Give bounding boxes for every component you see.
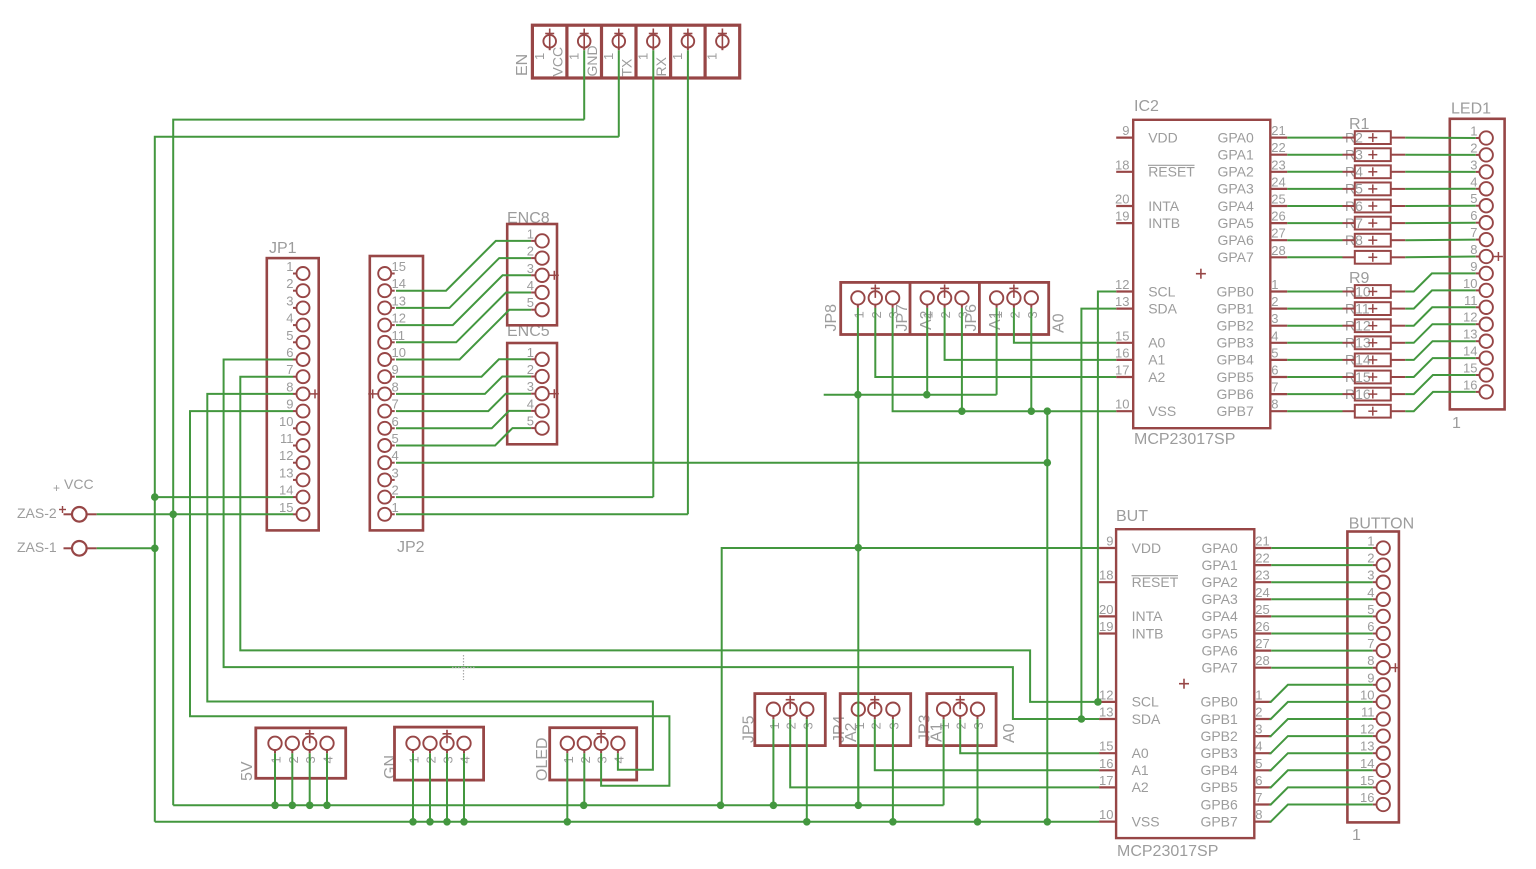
svg-text:27: 27 xyxy=(1255,636,1269,651)
svg-text:VCC: VCC xyxy=(549,47,565,77)
svg-text:9: 9 xyxy=(1470,259,1477,274)
svg-text:GPB5: GPB5 xyxy=(1216,369,1254,385)
svg-text:16: 16 xyxy=(1099,756,1113,771)
svg-text:5: 5 xyxy=(1470,191,1477,206)
svg-text:8: 8 xyxy=(1255,807,1262,822)
svg-text:RX: RX xyxy=(653,56,669,76)
svg-text:22: 22 xyxy=(1255,551,1269,566)
svg-text:16: 16 xyxy=(1360,790,1374,805)
svg-text:19: 19 xyxy=(1099,619,1113,634)
svg-text:14: 14 xyxy=(1360,756,1374,771)
svg-text:2: 2 xyxy=(527,244,534,259)
svg-text:SDA: SDA xyxy=(1148,300,1177,316)
svg-text:VDD: VDD xyxy=(1132,540,1162,556)
svg-text:GPA1: GPA1 xyxy=(1201,557,1238,573)
svg-text:2: 2 xyxy=(1367,551,1374,566)
svg-text:A1: A1 xyxy=(1132,762,1149,778)
svg-text:SDA: SDA xyxy=(1132,711,1161,727)
svg-text:14: 14 xyxy=(392,276,406,291)
svg-text:2: 2 xyxy=(1255,705,1262,720)
svg-text:6: 6 xyxy=(286,345,293,360)
svg-text:3: 3 xyxy=(1367,568,1374,583)
svg-text:4: 4 xyxy=(1271,328,1278,343)
svg-text:15: 15 xyxy=(1099,739,1113,754)
svg-text:25: 25 xyxy=(1255,602,1269,617)
svg-text:5: 5 xyxy=(1271,345,1278,360)
svg-text:6: 6 xyxy=(1367,619,1374,634)
svg-text:GPA7: GPA7 xyxy=(1201,660,1238,676)
svg-text:6: 6 xyxy=(1470,208,1477,223)
svg-text:IC2: IC2 xyxy=(1134,98,1159,115)
svg-text:5: 5 xyxy=(392,431,399,446)
svg-text:9: 9 xyxy=(1367,670,1374,685)
svg-text:13: 13 xyxy=(1099,705,1113,720)
svg-text:1: 1 xyxy=(1352,827,1361,844)
svg-text:17: 17 xyxy=(1099,773,1113,788)
svg-text:1: 1 xyxy=(1367,534,1374,549)
svg-text:8: 8 xyxy=(1271,397,1278,412)
svg-text:15: 15 xyxy=(1115,328,1129,343)
svg-text:ZAS-1: ZAS-1 xyxy=(17,539,57,555)
svg-text:7: 7 xyxy=(1271,380,1278,395)
svg-text:26: 26 xyxy=(1255,619,1269,634)
svg-text:MCP23017SP: MCP23017SP xyxy=(1117,843,1218,860)
svg-text:2: 2 xyxy=(286,276,293,291)
svg-text:6: 6 xyxy=(392,414,399,429)
svg-text:4: 4 xyxy=(527,278,534,293)
svg-text:9: 9 xyxy=(1106,534,1113,549)
svg-text:15: 15 xyxy=(279,500,293,515)
svg-text:GPB4: GPB4 xyxy=(1200,762,1238,778)
svg-text:1: 1 xyxy=(527,345,534,360)
svg-text:1: 1 xyxy=(286,259,293,274)
svg-text:GPB1: GPB1 xyxy=(1200,711,1238,727)
svg-text:INTB: INTB xyxy=(1148,215,1180,231)
svg-text:14: 14 xyxy=(1463,344,1477,359)
svg-text:4: 4 xyxy=(286,311,293,326)
svg-text:26: 26 xyxy=(1271,209,1285,224)
svg-text:10: 10 xyxy=(1463,276,1477,291)
svg-text:GPA7: GPA7 xyxy=(1217,249,1254,265)
svg-text:12: 12 xyxy=(1115,277,1129,292)
svg-text:GPA2: GPA2 xyxy=(1217,164,1254,180)
svg-text:A1: A1 xyxy=(1148,352,1165,368)
svg-text:GPB0: GPB0 xyxy=(1216,283,1254,299)
svg-text:8: 8 xyxy=(392,379,399,394)
svg-text:GPB7: GPB7 xyxy=(1216,403,1254,419)
svg-text:3: 3 xyxy=(286,293,293,308)
svg-text:GPB7: GPB7 xyxy=(1200,813,1238,829)
svg-text:1: 1 xyxy=(670,53,685,60)
svg-text:2: 2 xyxy=(392,483,399,498)
svg-text:21: 21 xyxy=(1271,123,1285,138)
svg-text:13: 13 xyxy=(279,465,293,480)
svg-text:GPB1: GPB1 xyxy=(1216,300,1254,316)
svg-text:SCL: SCL xyxy=(1148,283,1175,299)
svg-text:VDD: VDD xyxy=(1148,129,1178,145)
svg-text:9: 9 xyxy=(392,362,399,377)
svg-text:27: 27 xyxy=(1271,226,1285,241)
svg-text:VSS: VSS xyxy=(1148,403,1176,419)
svg-text:2: 2 xyxy=(1271,294,1278,309)
svg-text:24: 24 xyxy=(1271,174,1285,189)
svg-text:20: 20 xyxy=(1115,192,1129,207)
svg-text:28: 28 xyxy=(1255,653,1269,668)
svg-text:3: 3 xyxy=(1255,722,1262,737)
svg-text:15: 15 xyxy=(1463,361,1477,376)
svg-text:GPA5: GPA5 xyxy=(1201,625,1238,641)
svg-text:JP2: JP2 xyxy=(397,539,425,556)
svg-text:7: 7 xyxy=(1470,225,1477,240)
svg-text:BUTTON: BUTTON xyxy=(1349,516,1414,533)
svg-text:1: 1 xyxy=(1255,687,1262,702)
svg-text:ZAS-2: ZAS-2 xyxy=(17,505,57,521)
svg-text:A0: A0 xyxy=(1148,335,1165,351)
svg-text:GPA4: GPA4 xyxy=(1217,198,1254,214)
svg-text:GPA2: GPA2 xyxy=(1201,574,1238,590)
svg-text:7: 7 xyxy=(1367,636,1374,651)
svg-text:GPA3: GPA3 xyxy=(1201,591,1238,607)
svg-text:20: 20 xyxy=(1099,602,1113,617)
svg-text:A0: A0 xyxy=(1001,723,1018,743)
svg-text:MCP23017SP: MCP23017SP xyxy=(1134,431,1235,448)
svg-text:3: 3 xyxy=(1271,311,1278,326)
svg-text:11: 11 xyxy=(280,431,294,446)
svg-text:23: 23 xyxy=(1271,157,1285,172)
svg-text:GND: GND xyxy=(584,45,600,76)
svg-text:12: 12 xyxy=(279,448,293,463)
svg-text:GPB3: GPB3 xyxy=(1200,745,1238,761)
svg-text:3: 3 xyxy=(392,465,399,480)
svg-text:INTA: INTA xyxy=(1148,198,1180,214)
svg-text:GPB6: GPB6 xyxy=(1200,796,1238,812)
svg-text:11: 11 xyxy=(1361,705,1375,720)
svg-text:GPA6: GPA6 xyxy=(1217,232,1254,248)
svg-text:GPA6: GPA6 xyxy=(1201,642,1238,658)
svg-text:4: 4 xyxy=(527,396,534,411)
svg-text:GPA0: GPA0 xyxy=(1201,540,1238,556)
svg-text:18: 18 xyxy=(1115,157,1129,172)
svg-text:LED1: LED1 xyxy=(1451,101,1491,118)
svg-text:GPB3: GPB3 xyxy=(1216,335,1254,351)
svg-text:7: 7 xyxy=(392,397,399,412)
svg-text:5: 5 xyxy=(527,414,534,429)
svg-text:2: 2 xyxy=(1470,140,1477,155)
svg-text:5: 5 xyxy=(1255,756,1262,771)
svg-text:18: 18 xyxy=(1099,568,1113,583)
svg-text:+: + xyxy=(53,481,60,495)
svg-text:12: 12 xyxy=(1463,310,1477,325)
svg-text:9: 9 xyxy=(286,397,293,412)
svg-text:15: 15 xyxy=(392,259,406,274)
svg-text:4: 4 xyxy=(392,448,399,463)
svg-text:A0: A0 xyxy=(1051,313,1068,333)
svg-text:4: 4 xyxy=(1367,585,1374,600)
svg-text:12: 12 xyxy=(392,311,406,326)
svg-text:GPA0: GPA0 xyxy=(1217,129,1254,145)
svg-text:3: 3 xyxy=(527,261,534,276)
svg-text:1: 1 xyxy=(532,53,547,60)
svg-text:GPB4: GPB4 xyxy=(1216,352,1254,368)
svg-text:19: 19 xyxy=(1115,209,1129,224)
svg-text:6: 6 xyxy=(1271,363,1278,378)
svg-text:1: 1 xyxy=(636,53,651,60)
svg-text:8: 8 xyxy=(286,379,293,394)
svg-text:5: 5 xyxy=(1367,602,1374,617)
svg-text:10: 10 xyxy=(1115,397,1129,412)
svg-text:RESET: RESET xyxy=(1132,574,1179,590)
svg-text:1: 1 xyxy=(601,53,616,60)
svg-text:GPB5: GPB5 xyxy=(1200,779,1238,795)
svg-text:GPB2: GPB2 xyxy=(1216,318,1254,334)
svg-text:INTA: INTA xyxy=(1132,608,1164,624)
svg-text:14: 14 xyxy=(279,483,293,498)
svg-text:10: 10 xyxy=(279,414,293,429)
svg-text:RESET: RESET xyxy=(1148,164,1195,180)
svg-text:GN: GN xyxy=(382,755,399,779)
svg-text:10: 10 xyxy=(392,345,406,360)
svg-text:1: 1 xyxy=(1452,415,1461,432)
svg-text:12: 12 xyxy=(1360,722,1374,737)
svg-text:1: 1 xyxy=(392,500,399,515)
svg-text:4: 4 xyxy=(1255,739,1262,754)
svg-text:11: 11 xyxy=(392,328,406,343)
svg-text:JP8: JP8 xyxy=(823,304,840,332)
svg-text:1: 1 xyxy=(705,53,720,60)
svg-text:13: 13 xyxy=(1463,327,1477,342)
svg-text:3: 3 xyxy=(527,379,534,394)
svg-text:8: 8 xyxy=(1367,653,1374,668)
svg-text:5: 5 xyxy=(286,328,293,343)
svg-text:A2: A2 xyxy=(1148,369,1165,385)
svg-text:13: 13 xyxy=(392,293,406,308)
svg-text:16: 16 xyxy=(1463,377,1477,392)
svg-text:1: 1 xyxy=(1470,124,1477,139)
svg-text:GPA5: GPA5 xyxy=(1217,215,1254,231)
svg-text:GPB6: GPB6 xyxy=(1216,386,1254,402)
svg-text:23: 23 xyxy=(1255,568,1269,583)
svg-text:GPA1: GPA1 xyxy=(1217,147,1254,163)
svg-text:GPA4: GPA4 xyxy=(1201,608,1238,624)
svg-text:VCC: VCC xyxy=(64,476,94,492)
svg-text:1: 1 xyxy=(527,226,534,241)
svg-text:TX: TX xyxy=(619,58,635,77)
svg-text:A0: A0 xyxy=(1132,745,1149,761)
svg-text:24: 24 xyxy=(1255,585,1269,600)
svg-text:1: 1 xyxy=(566,53,581,60)
svg-text:GPB0: GPB0 xyxy=(1200,694,1238,710)
svg-text:21: 21 xyxy=(1255,534,1269,549)
svg-text:JP1: JP1 xyxy=(269,240,297,257)
svg-text:1: 1 xyxy=(1271,277,1278,292)
svg-text:17: 17 xyxy=(1115,363,1129,378)
svg-text:4: 4 xyxy=(1470,174,1477,189)
svg-text:16: 16 xyxy=(1115,345,1129,360)
svg-text:13: 13 xyxy=(1115,294,1129,309)
svg-text:8: 8 xyxy=(1470,242,1477,257)
svg-text:25: 25 xyxy=(1271,192,1285,207)
svg-text:10: 10 xyxy=(1360,687,1374,702)
svg-text:9: 9 xyxy=(1122,123,1129,138)
svg-text:6: 6 xyxy=(1255,773,1262,788)
svg-text:SCL: SCL xyxy=(1132,694,1159,710)
svg-text:7: 7 xyxy=(1255,790,1262,805)
svg-text:5V: 5V xyxy=(239,761,256,781)
svg-text:GPA3: GPA3 xyxy=(1217,181,1254,197)
svg-text:GPB2: GPB2 xyxy=(1200,728,1238,744)
svg-text:28: 28 xyxy=(1271,243,1285,258)
svg-text:A2: A2 xyxy=(1132,779,1149,795)
svg-text:10: 10 xyxy=(1099,807,1113,822)
svg-text:2: 2 xyxy=(527,362,534,377)
svg-text:VSS: VSS xyxy=(1132,813,1160,829)
svg-text:13: 13 xyxy=(1360,739,1374,754)
svg-text:INTB: INTB xyxy=(1132,625,1164,641)
svg-text:3: 3 xyxy=(1470,157,1477,172)
svg-text:22: 22 xyxy=(1271,140,1285,155)
svg-text:7: 7 xyxy=(286,362,293,377)
svg-text:BUT: BUT xyxy=(1116,508,1148,525)
svg-text:5: 5 xyxy=(527,295,534,310)
svg-text:EN: EN xyxy=(514,54,531,76)
svg-text:11: 11 xyxy=(1464,293,1478,308)
svg-text:15: 15 xyxy=(1360,773,1374,788)
